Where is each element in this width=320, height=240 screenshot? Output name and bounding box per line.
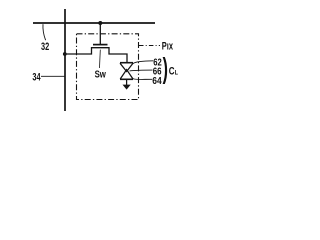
label Sw leader <box>99 50 102 68</box>
svg-text:L: L <box>175 69 178 76</box>
transistor Sw channel with source/drain wire <box>65 48 127 62</box>
transistor Sw gate bar <box>93 44 108 46</box>
svg-text:32: 32 <box>41 41 49 53</box>
LC cell electrode 62 (top plate) <box>120 62 133 64</box>
LC cell layer 66 lower triangle <box>120 70 133 79</box>
svg-text:64: 64 <box>152 76 162 87</box>
LC cell layer 66 upper triangle <box>120 63 133 71</box>
svg-text:Sw: Sw <box>95 69 107 81</box>
leader to 66 <box>130 69 153 72</box>
data line (signal line) 34 <box>64 9 66 111</box>
leader to 64 <box>133 78 152 81</box>
svg-text:Pıx: Pıx <box>162 40 173 52</box>
common electrode arrow shaft <box>126 79 128 85</box>
leader to 62 <box>133 61 153 64</box>
gate line (scan line) 32 <box>33 22 155 24</box>
label Pix leader (dash-dot) <box>139 45 160 47</box>
LC cell electrode 64 (bottom plate) <box>120 78 133 80</box>
label 32 leader <box>43 24 46 40</box>
svg-text:34: 34 <box>32 72 41 84</box>
pixel boundary box Pix (dash-dot) <box>77 34 139 100</box>
junction dot on gate line at transistor gate <box>98 21 102 25</box>
common electrode arrow head <box>123 85 131 90</box>
junction dot on data line at source <box>63 52 67 56</box>
svg-text:): ) <box>163 52 168 84</box>
label 34 leader <box>41 75 65 77</box>
gate feed wire <box>99 23 101 44</box>
